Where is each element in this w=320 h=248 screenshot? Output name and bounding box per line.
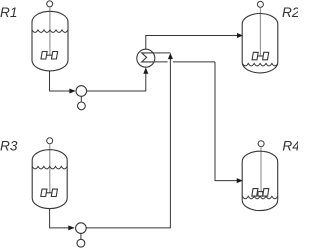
reactor R2 vessel bbox=[242, 14, 278, 73]
svg-text:R1: R1 bbox=[0, 5, 17, 20]
arrow into reactor R2 bbox=[237, 33, 243, 38]
svg-text:R2: R2 bbox=[282, 5, 298, 20]
svg-text:R4: R4 bbox=[282, 139, 298, 154]
reactor R2 impeller bbox=[252, 52, 269, 60]
pump P1 body bbox=[76, 86, 87, 97]
reactor R2 liquid level wave bbox=[242, 63, 277, 66]
heat exchanger E1 coil (sigma) bbox=[142, 53, 155, 62]
reactor R3 vessel bbox=[32, 150, 67, 209]
wire E1 outlet to reactor R2 bbox=[146, 36, 243, 50]
reactor R2 motor circle bbox=[257, 1, 263, 7]
reactor R1 stirrer shaft bbox=[49, 7, 51, 55]
reactor R4 vessel bbox=[242, 151, 278, 210]
arrow into pump P2 bbox=[68, 225, 74, 230]
reactor R2 stirrer shaft bbox=[259, 7, 261, 56]
reactor R4 liquid level wave bbox=[242, 196, 277, 199]
reactor R4 impeller bbox=[252, 189, 269, 197]
reactor R3 impeller bbox=[41, 189, 58, 196]
arrow up into coil inlet bbox=[168, 53, 173, 59]
pump P2 lower circle bbox=[77, 239, 85, 247]
wire coil outlet stub (gap at crossing) bbox=[155, 61, 215, 63]
reactor R1 motor circle bbox=[47, 1, 53, 7]
wire pump P1 to heat exchanger E1 bbox=[87, 69, 146, 91]
wire R3 outlet to pump P2 bbox=[50, 208, 74, 228]
reactor R4 stirrer shaft bbox=[260, 147, 262, 192]
reactor R3 liquid level wave bbox=[32, 166, 67, 169]
wire from pump P2 up to coil inlet bbox=[86, 59, 170, 228]
reactor R1 impeller bbox=[41, 52, 58, 60]
reactor R1 vessel bbox=[32, 11, 68, 71]
svg-text:R3: R3 bbox=[0, 139, 18, 154]
reactor R3 motor circle bbox=[47, 138, 53, 144]
pump P2 body bbox=[76, 223, 87, 234]
pump P1 lower circle bbox=[78, 102, 86, 110]
arrow into pump P1 bbox=[69, 89, 75, 94]
wire R1 outlet to pump P1 bbox=[50, 71, 75, 91]
reactor R1 liquid level wave bbox=[32, 30, 68, 33]
reactor R4 motor circle bbox=[258, 141, 264, 147]
arrow into reactor R4 bbox=[237, 178, 243, 183]
pump P2 stem bbox=[80, 233, 82, 239]
wire coil outlet down to reactor R4 bbox=[215, 62, 242, 181]
wire coil inlet stub bbox=[155, 52, 171, 54]
reactor R3 stirrer shaft bbox=[49, 144, 51, 193]
heat exchanger E1 circle bbox=[137, 49, 155, 67]
pump P1 stem bbox=[80, 96, 82, 102]
arrow into heat exchanger E1 bottom bbox=[143, 68, 148, 74]
